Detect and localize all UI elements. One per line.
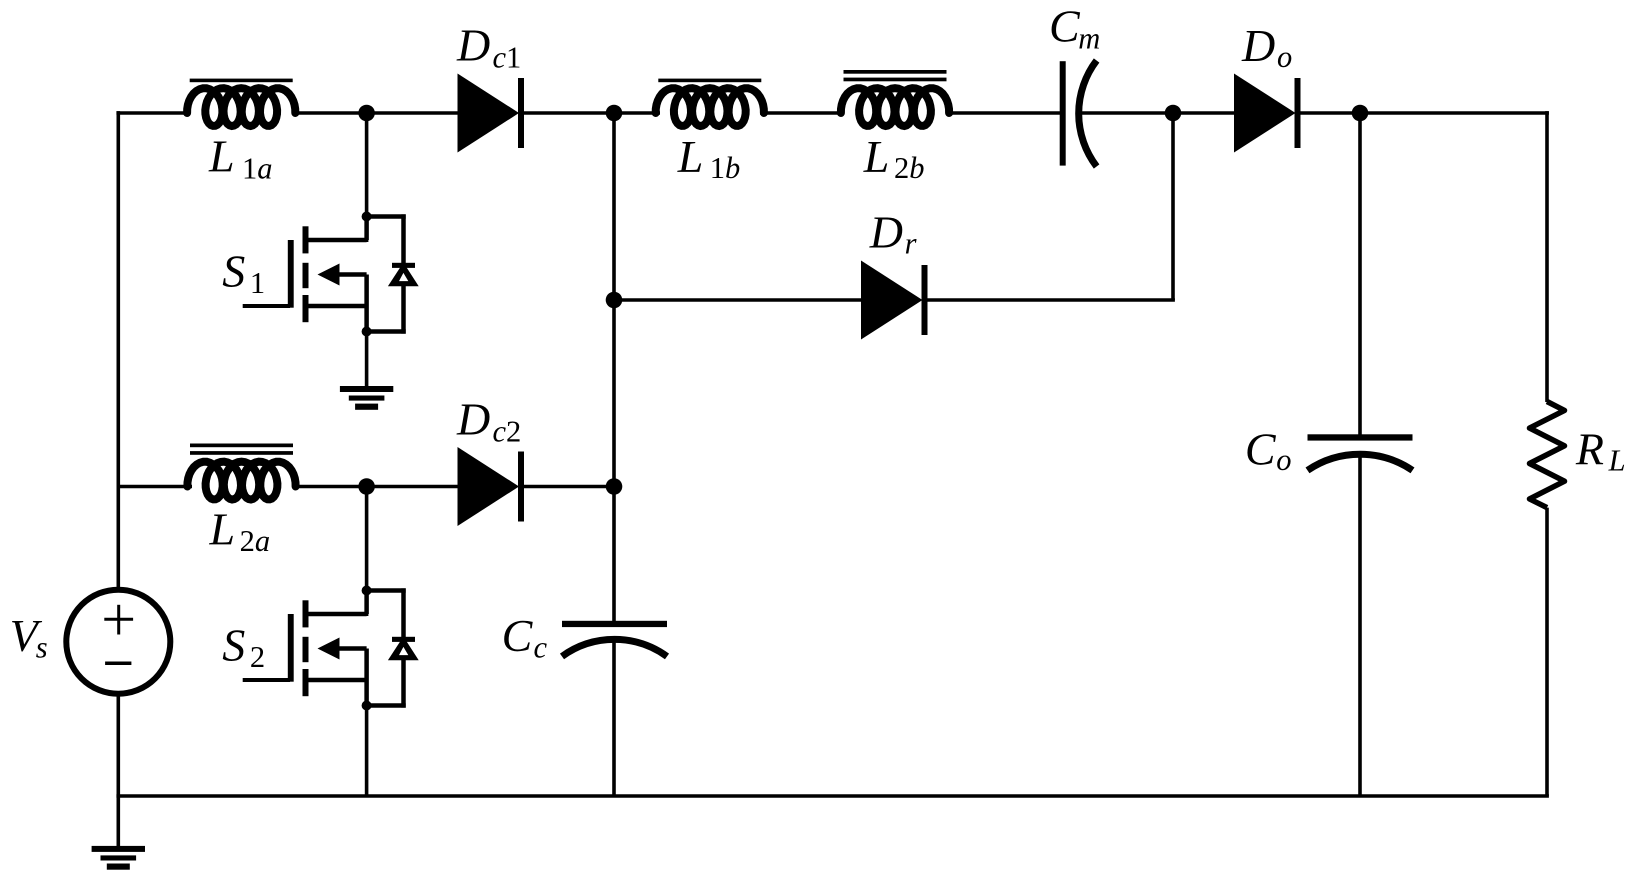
svg-text:L: L [677, 131, 704, 182]
svg-text:r: r [905, 227, 917, 261]
node E (L2a/S2/Dc2) [358, 478, 375, 495]
label Cm [1049, 1, 1100, 56]
ground below S1 [340, 386, 393, 410]
svg-text:L: L [863, 131, 890, 182]
wire Dc1 cathode to node B [522, 111, 614, 115]
svg-text:D: D [1241, 20, 1275, 71]
svg-text:L: L [1608, 444, 1626, 478]
svg-text:L: L [208, 131, 235, 182]
wire S1 source to ground [365, 329, 369, 388]
node Dr junction [606, 292, 623, 309]
wire Dr left [614, 298, 864, 302]
wire right vertical bottom [1545, 508, 1549, 796]
wire Dr vertical to node C [1171, 113, 1175, 300]
svg-text:C: C [502, 610, 534, 661]
diode Do [1234, 74, 1301, 153]
svg-text:1b: 1b [710, 151, 741, 185]
transistor S2 [243, 586, 419, 711]
svg-text:C: C [1245, 424, 1277, 475]
wire node B vertical [612, 113, 616, 621]
label Dc1 [456, 20, 521, 75]
diode Dc1 [458, 74, 525, 153]
wire node E to Dc2 anode [367, 485, 460, 489]
wire L2a to node E [294, 485, 367, 489]
label RL [1575, 424, 1626, 478]
transistor S1 [243, 212, 419, 337]
wire Cc to bottom rail [612, 639, 616, 796]
label S1 [222, 246, 265, 301]
wire L1a to node A [293, 111, 367, 115]
wire L2b to Cm [948, 111, 1062, 115]
label L2b [863, 131, 925, 185]
svg-text:S: S [222, 246, 245, 297]
svg-text:o: o [1276, 443, 1291, 477]
wire node C to Do anode [1173, 111, 1237, 115]
svg-text:D: D [456, 20, 490, 71]
node F (Dc2/Cc) [606, 478, 623, 495]
svg-text:R: R [1575, 424, 1604, 475]
svg-text:2a: 2a [240, 524, 271, 558]
wire node A to S1 drain [365, 113, 369, 242]
inductor L2b [841, 70, 949, 126]
capacitor Cc [562, 621, 667, 657]
wire right vertical top [1545, 111, 1549, 402]
resistor RL [1530, 402, 1565, 508]
wire node D vertical to Co [1358, 113, 1362, 435]
capacitor Cm [1060, 61, 1097, 167]
wire Dc2 cathode to node F [522, 485, 614, 489]
svg-text:c1: c1 [493, 41, 522, 75]
svg-text:2b: 2b [894, 151, 925, 185]
svg-text:D: D [869, 207, 903, 258]
wire node A to Dc1 anode [367, 111, 460, 115]
diode Dr [861, 261, 928, 340]
wire Cm to node C [1079, 111, 1173, 115]
diode Dc2 [458, 447, 525, 526]
svg-text:L: L [209, 504, 236, 555]
wire top rail left segment [116, 111, 190, 115]
inductor L2a [187, 444, 295, 500]
label L1a [208, 131, 273, 186]
svg-text:1: 1 [250, 266, 265, 300]
wire second row left [118, 485, 192, 489]
node A (L1a/S1/Dc1) [358, 105, 375, 122]
svg-text:o: o [1277, 40, 1292, 74]
inductor L1b [656, 79, 764, 126]
label S2 [222, 620, 265, 675]
inductor L1a [187, 79, 295, 126]
wire bottom rail [116, 794, 1549, 798]
svg-text:D: D [456, 394, 490, 445]
svg-text:C: C [1049, 1, 1081, 52]
capacitor Co [1308, 434, 1413, 470]
wire Do cathode to node D and top-right corner [1298, 111, 1549, 115]
ground below Vs [92, 846, 145, 870]
wire left vertical [117, 111, 121, 590]
wire Co to bottom rail [1358, 454, 1362, 796]
label L2a [209, 504, 271, 559]
svg-text:1a: 1a [242, 152, 273, 186]
svg-text:c: c [534, 631, 548, 665]
label L1b [677, 131, 740, 185]
wire S2 source to bottom rail [365, 703, 369, 796]
label Dr [869, 207, 917, 261]
label Vs [10, 610, 48, 665]
svg-text:m: m [1078, 22, 1100, 56]
wire L1b to L2b [760, 111, 842, 115]
wire node E to S2 drain [365, 487, 369, 617]
svg-text:S: S [222, 620, 245, 671]
svg-text:s: s [36, 631, 48, 665]
wire Dr right [924, 298, 1175, 302]
svg-text:2: 2 [250, 640, 265, 674]
wire Vs to bottom rail and ground [117, 694, 121, 850]
label Dc2 [456, 394, 521, 449]
svg-text:c2: c2 [493, 415, 522, 449]
label Do [1241, 20, 1292, 74]
label Cc [502, 610, 548, 665]
node D (Do/Co) [1352, 105, 1369, 122]
label Co [1245, 424, 1292, 478]
voltage source Vs [66, 590, 170, 694]
node C (Cm/Do/Dr) [1165, 105, 1182, 122]
node B (Dc1/L1b/Dr) [606, 105, 623, 122]
wire node B to L1b [614, 111, 660, 115]
